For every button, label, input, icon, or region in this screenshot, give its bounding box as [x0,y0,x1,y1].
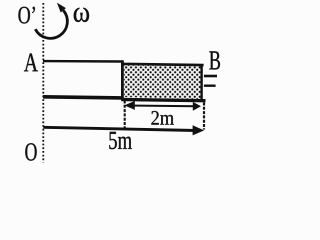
label 5m [109,132,132,149]
label 2m [151,111,173,125]
spout top line [204,75,217,78]
label A [24,53,38,71]
axis O-O' (dotted vertical line) [42,3,44,163]
tube bottom edge (empty section) [43,97,123,98]
liquid right edge [200,64,202,100]
tube top edge (liquid section) [121,64,203,65]
label B [209,51,220,69]
dashed extension line right [203,103,205,130]
liquid left boundary [121,60,124,99]
spout bottom line [204,84,216,86]
2m double arrow shaft [127,105,196,108]
tube top edge (empty section) [43,60,123,63]
dashed extension line left [124,101,126,129]
rotation arc [35,10,67,38]
label O [25,143,36,160]
2m right arrowhead [193,102,201,111]
5m arrow shaft [43,127,196,130]
label O' [18,7,35,24]
5m arrowhead [193,125,205,135]
tube bottom edge (liquid section) [121,100,205,101]
rotation arrowhead [57,3,66,13]
2m left arrowhead [124,101,135,110]
liquid (stippled region) [124,65,202,99]
label omega [74,8,89,22]
